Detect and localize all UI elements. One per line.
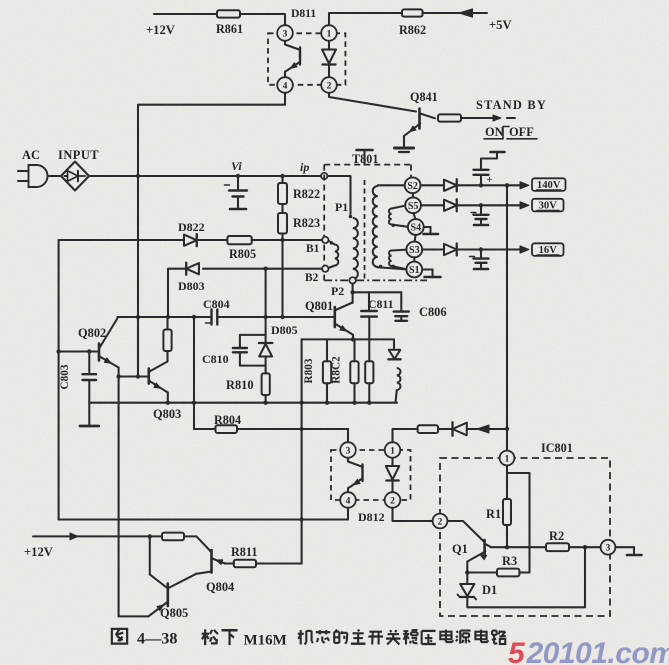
caption figure title [112,629,127,644]
wire Q1 collector line [491,546,546,548]
wire Q802 emitter long vertical [118,368,120,617]
node ip [321,173,327,179]
resistor R810 [265,357,267,374]
transistor Q801 [333,307,336,327]
D811 phototransistor [285,40,299,50]
ground Q841 emitter [403,136,405,147]
wire left rail [58,240,60,520]
IC801 pin 1 [500,451,515,466]
D811 pin 4 [277,77,293,93]
resistor unlabeled Q803 collector [166,317,168,330]
wire D822 line [59,239,184,241]
diode D805 [265,317,267,343]
wire +12V top to R861 [154,13,217,15]
IC801 pin 3 [601,540,616,555]
wire Q805 emitter bottom [119,615,149,617]
filter capacitor 16V [480,250,482,259]
resistor R862 [402,9,423,16]
resistor Q804 bias [162,533,184,541]
resistor R803 [326,339,328,361]
D811 pin 1 [321,25,337,41]
AC plug [18,170,29,172]
secondary main winding [378,184,405,186]
resistor R861 [217,10,240,17]
D811 pin 2 [321,77,337,93]
node B2 [322,266,328,272]
wire S1 to ground [422,268,432,270]
wire R861 to D811 pin3 [240,14,285,25]
ground at pin3 [615,546,634,548]
D812 pin 3 [340,442,356,458]
capacitor C804 [210,310,212,325]
transistor Q805 [149,536,151,574]
capacitor C806 [400,292,402,311]
D812 phototransistor [348,457,362,467]
optocoupler D812 box [331,450,411,500]
box 30V [532,199,564,212]
bus 140V vertical [506,185,508,450]
capacitor at Vi [237,176,239,190]
winding P1 [327,176,350,214]
diode D803 [186,263,199,274]
wire feedback bottom [59,518,348,520]
wire D812 pin4 down [347,508,349,520]
T801 bottom dash-dot edge [324,279,427,281]
wire D812 pin3 up [347,429,349,442]
resistor R1 [506,465,508,499]
arrow +5V direction [459,9,473,17]
rectifier diode 140V [444,180,457,191]
arrow into 30V box [520,202,529,209]
resistor R3 [467,571,497,573]
filter capacitor 30V [480,205,482,214]
terminal S2 [405,177,421,193]
chain wires between S terminals [412,193,414,197]
resistor R822 [281,176,283,183]
wire D811 pin1 to R862 [329,13,402,25]
wire F2 junction [352,284,354,303]
wire diode to bus [468,428,507,430]
vertical R823 to C804 line [281,240,283,317]
diode D812 input [453,423,467,436]
IC801 pin 2 [433,514,448,529]
diode damper with thermistor [393,339,395,349]
core line [364,180,366,279]
rectifier diode 30V [444,200,457,211]
wire diode to 16V [458,248,523,250]
vertical B2 to C810 branch [265,269,267,317]
terminal S1 [406,262,422,278]
wire plug to bridge [48,175,62,177]
wire D803 to corner [168,269,186,317]
node P2 [349,277,355,283]
wire D822 to R805 [199,239,228,241]
wire pin1 branch to R3 [507,473,530,573]
wire D811 pin4 down-left [138,93,285,176]
wire AC main horizontal [89,175,321,177]
D811 internal LED [328,40,330,50]
wire common bottom [89,402,397,404]
D812 pin 4 [340,492,356,508]
resistor D812 input [418,425,439,433]
wire D811 pin2 to Q841 base [329,93,416,112]
wire S2 to diode [421,184,444,186]
diode D822 [184,235,197,246]
winding S3-S1 tap [389,251,392,267]
branch C810 [240,335,266,348]
wire D812 pin1 to resistor [393,429,418,442]
diode D1 zener [466,573,468,584]
resistor on C811 leg [368,317,370,362]
terminal S4 [408,219,424,235]
D812 pin 2 [385,492,401,508]
wire network left vertical [301,339,303,563]
transistor Q1 [447,521,483,542]
winding S5-S4 tap [389,209,392,225]
resistor R802 [353,339,355,361]
transistor Q802 [98,344,101,361]
resistor on Q841 collector [438,114,461,121]
terminal S5 [405,197,421,213]
resistor R804 [194,428,216,430]
vertical to Q803 base [137,317,139,377]
wire S4 to ground [424,226,431,228]
box 16V [532,243,564,256]
capacitor C810 [233,347,247,349]
wire to STAND BY [461,117,497,119]
wire diode to 30V [458,204,523,206]
wire D1 to pin3 [467,547,585,607]
wire S5 to diode [421,204,444,206]
arrow into 140V box [520,182,529,189]
capacitor C803 [88,352,90,374]
optocoupler D811 box [268,33,345,85]
wire C804 line left [117,316,211,318]
box 140V [532,178,566,191]
D812 internal LED [391,457,393,466]
wire +12V bottom [33,535,197,537]
resistor R823 [281,204,283,213]
D811 pin 3 [277,25,293,41]
wire R804 to D812 pin3 [237,428,348,430]
capacitor C811 [368,292,370,310]
wire D812 pin2 to IC801 pin2 [393,508,433,521]
wire R862 to +5V [423,12,488,14]
resistor R805 [227,236,251,244]
transistor Q804 [197,536,211,551]
arrow into 16V box [520,246,529,253]
core ground [363,151,365,165]
wire B2 line [203,268,322,270]
resistor R2 [546,543,569,551]
filter capacitor 140V [480,175,482,185]
wire diode to 140V [458,184,523,186]
wire network top [302,338,394,340]
node B1 [322,237,328,243]
wire C804 line right to Q801 base [217,316,333,318]
D812 pin 1 [385,442,401,458]
ground 140V cap [481,153,497,170]
wire main left vertical [137,176,139,377]
transformer T801 boundary [324,164,411,166]
vertical to common wire [193,317,195,429]
winding B [330,241,333,244]
transistor Q803 [148,369,151,384]
rectifier diode 16V [444,244,457,255]
wire S3 to diode [422,248,444,250]
resistor R811 [225,562,234,564]
transistor Q841 [418,109,421,129]
wire R805 to B1 [252,239,323,241]
IC801 dashed box [440,458,610,616]
bridge rectifier [61,162,89,191]
terminal S3 [406,242,422,258]
